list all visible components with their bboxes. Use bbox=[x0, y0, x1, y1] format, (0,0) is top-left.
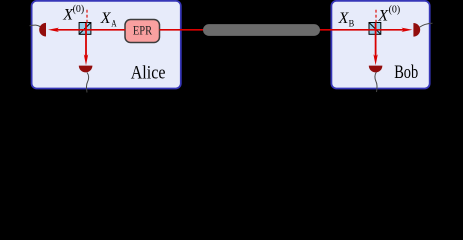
detector D-A2 (bottom, opening down) bbox=[79, 66, 93, 73]
wire from Bob bottom detector bbox=[375, 72, 377, 92]
beam: EPR to channel bbox=[160, 29, 205, 31]
beam: channel to BS-B to right detector (arrow) bbox=[319, 28, 412, 32]
detector D-B1 (right, opening left) bbox=[413, 23, 420, 37]
svg-text:A: A bbox=[111, 19, 116, 29]
Alice station box bbox=[32, 1, 181, 89]
wire from Alice left detector bbox=[30, 25, 41, 27]
dashed reference line X(0) Alice bbox=[86, 10, 88, 23]
dashed reference line X(0) Bob bbox=[375, 10, 377, 23]
beam splitter BS-A bbox=[79, 23, 91, 35]
EPR source box bbox=[125, 20, 160, 43]
svg-text:EPR: EPR bbox=[133, 24, 153, 38]
wire from Alice bottom detector bbox=[86, 72, 88, 92]
svg-text:(0): (0) bbox=[389, 4, 401, 15]
beam: BS-A down to Alice bottom detector (arrow) bbox=[84, 23, 88, 65]
beam: BS-A to left detector (arrow) bbox=[48, 28, 125, 32]
beam: BS-B down to Bob bottom detector (arrow) bbox=[373, 23, 377, 65]
svg-text:X: X bbox=[377, 7, 389, 24]
wire from Bob right detector bbox=[420, 23, 433, 27]
quantum channel bar bbox=[203, 24, 320, 36]
svg-text:Bob: Bob bbox=[394, 63, 418, 83]
detector D-B2 (bottom, opening down) bbox=[369, 66, 383, 73]
svg-text:Alice: Alice bbox=[131, 64, 166, 84]
beam splitter BS-B bbox=[369, 23, 381, 35]
detector D-A1 (left, opening right) bbox=[39, 23, 46, 37]
svg-text:B: B bbox=[349, 19, 355, 29]
svg-text:(0): (0) bbox=[73, 4, 85, 15]
svg-text:X: X bbox=[100, 10, 112, 27]
Bob station box bbox=[331, 1, 429, 89]
